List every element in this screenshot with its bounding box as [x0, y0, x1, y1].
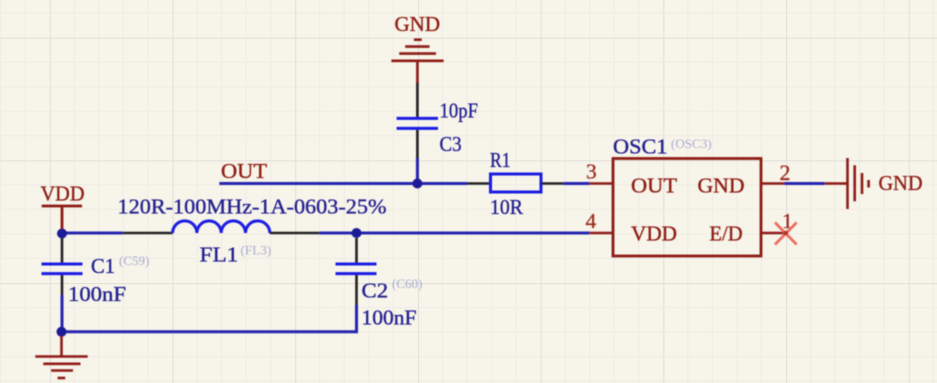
pin 2 of OSC1: [761, 182, 785, 185]
capacitor C1: [42, 264, 83, 274]
pin 1 end dot: [784, 231, 788, 235]
oscillator U1 OSC1 body: [613, 159, 761, 257]
svg-text:OUT: OUT: [631, 174, 677, 198]
pin wire C1 top: [61, 238, 64, 263]
pin wire R1 left: [467, 182, 491, 185]
svg-text:3: 3: [586, 160, 597, 184]
svg-text:VDD: VDD: [41, 182, 85, 206]
svg-text:FL1: FL1: [200, 243, 239, 267]
wire R1 to pin 3: [563, 182, 589, 185]
capacitor C3: [397, 118, 438, 128]
svg-text:C2: C2: [362, 279, 389, 303]
capacitor C2: [336, 264, 377, 274]
svg-text:120R-100MHz-1A-0603-25%: 120R-100MHz-1A-0603-25%: [118, 195, 387, 219]
pin wire FL1 right: [270, 232, 319, 235]
pin wire C1 bottom: [61, 275, 64, 295]
junction node at C3: [412, 179, 422, 189]
junction node at C2: [352, 228, 362, 238]
svg-text:VDD: VDD: [631, 221, 677, 245]
svg-text:C1: C1: [91, 254, 115, 278]
svg-text:(OSC3): (OSC3): [671, 136, 712, 151]
svg-text:10R: 10R: [490, 195, 523, 219]
ground symbol (bottom left, earth): [35, 336, 87, 378]
svg-text:(FL3): (FL3): [241, 243, 272, 258]
svg-text:OSC1: OSC1: [613, 134, 668, 158]
ground symbol GND (right, earth): [825, 158, 869, 209]
pin 4 of OSC1: [589, 232, 613, 235]
svg-text:2: 2: [780, 160, 791, 185]
svg-text:100nF: 100nF: [68, 282, 126, 306]
wire pin 2 to ground: [785, 182, 825, 185]
junction node at ground: [57, 327, 67, 337]
pin wire C2 bottom: [355, 275, 358, 305]
svg-text:GND: GND: [698, 174, 745, 198]
svg-text:10pF: 10pF: [440, 99, 479, 123]
svg-text:OUT: OUT: [221, 159, 267, 183]
resistor R1: [491, 174, 542, 192]
ferrite bead FL1: [173, 221, 270, 233]
svg-text:100nF: 100nF: [362, 306, 417, 330]
no-connect X on pin 1: [775, 223, 797, 245]
pin wire C2 top: [355, 238, 358, 263]
pin wire C3 top: [416, 83, 419, 117]
svg-text:R1: R1: [490, 148, 511, 172]
ground symbol GND (top, earth): [391, 40, 443, 84]
svg-text:GND: GND: [879, 171, 923, 195]
svg-text:(C60): (C60): [392, 276, 422, 291]
power port VDD: [42, 206, 82, 229]
pin 1 of OSC1: [761, 232, 786, 235]
junction node at VDD: [57, 229, 67, 239]
wire FL1 to pin 4: [319, 232, 589, 235]
svg-text:(C59): (C59): [119, 253, 149, 268]
wire C3 to node: [416, 158, 419, 184]
wire C2 to bottom rail: [62, 305, 357, 332]
wire VDD to FL1: [62, 232, 122, 235]
wire C1 to bottom rail: [61, 295, 64, 332]
svg-text:4: 4: [586, 209, 597, 233]
wire OUT to R1: [219, 182, 467, 185]
svg-text:E/D: E/D: [709, 221, 742, 245]
pin wire R1 right: [541, 182, 563, 185]
pin wire FL1 left: [122, 232, 172, 235]
pin 3 of OSC1: [589, 182, 613, 185]
svg-text:C3: C3: [440, 132, 462, 156]
pin wire C3 bottom: [416, 130, 419, 158]
svg-text:GND: GND: [395, 12, 441, 36]
